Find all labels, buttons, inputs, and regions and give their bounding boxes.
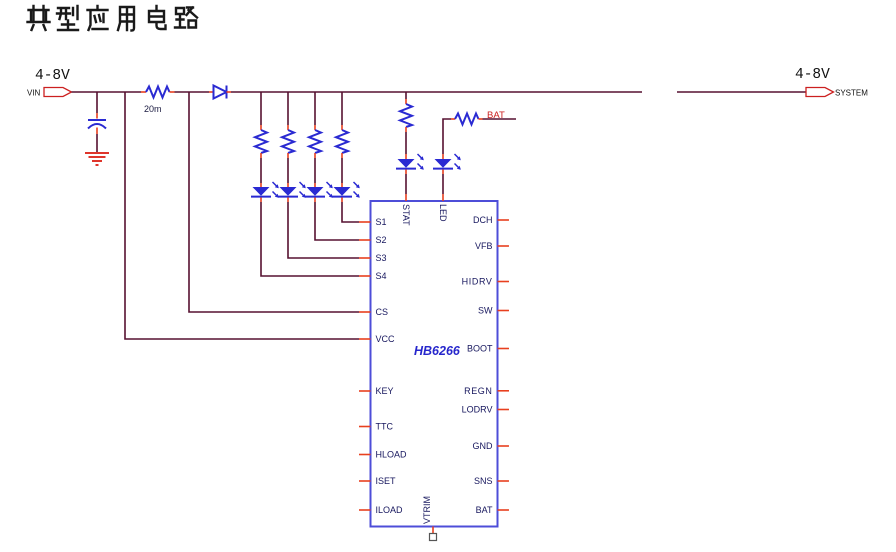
pin S3: [359, 253, 387, 263]
wire VIN to R1: [72, 91, 142, 93]
LED D3 (S3): [278, 182, 306, 202]
wire LED D7 anode up: [443, 119, 451, 154]
port SYSTEM connector: [806, 88, 868, 98]
wire LED D2 to S4 pin: [261, 202, 359, 276]
diode D1: [209, 86, 231, 99]
wire LED D6 to STAT pin: [405, 174, 407, 194]
svg-text:BAT: BAT: [476, 505, 493, 515]
svg-text:HLOAD: HLOAD: [376, 450, 408, 460]
svg-text:SNS: SNS: [474, 476, 493, 486]
wire Q1 drain to SYSTEM: [677, 91, 806, 93]
svg-text:S1: S1: [376, 217, 387, 227]
pin TTC: [359, 422, 393, 432]
resistor R2 (S4 branch): [255, 92, 267, 183]
svg-text:S3: S3: [376, 253, 387, 263]
svg-text:VFB: VFB: [475, 241, 493, 251]
svg-text:ILOAD: ILOAD: [376, 505, 404, 515]
pin CS: [359, 307, 388, 317]
pin VCC: [359, 334, 395, 344]
svg-text:KEY: KEY: [376, 386, 394, 396]
pin VTRIM (bottom): [422, 496, 437, 541]
pin LODRV: [462, 405, 509, 415]
pin ILOAD: [359, 505, 403, 515]
LED D4 (S2): [305, 182, 333, 202]
wire LED D3 to S3 pin: [288, 202, 359, 258]
svg-text:S4: S4: [376, 271, 387, 281]
LED D6 (STAT): [396, 154, 424, 174]
ground (input cap): [85, 153, 109, 165]
svg-text:HB6266: HB6266: [414, 344, 461, 358]
svg-text:REGN: REGN: [464, 386, 492, 396]
wire LED D5 to S1 pin: [342, 202, 359, 222]
pin LED (top): [438, 194, 448, 222]
pin VFB: [475, 241, 509, 251]
pin SNS: [474, 476, 509, 486]
resistor R4 (S2 branch): [309, 92, 321, 183]
pin DCH: [473, 215, 509, 225]
svg-text:BAT: BAT: [487, 110, 505, 121]
svg-text:TTC: TTC: [376, 422, 394, 432]
LED D5 (S1): [332, 182, 360, 202]
svg-text:VCC: VCC: [376, 334, 396, 344]
pin KEY: [359, 386, 394, 396]
op-amp U1 HB6266 body: [371, 201, 498, 527]
pin GND: [473, 441, 510, 451]
resistor R1 20m: [141, 87, 175, 115]
LED D2 (S4): [251, 182, 279, 202]
resistor R7 (LED to BAT): [451, 114, 483, 125]
wire D1 to Q1 source (main rail): [231, 91, 642, 93]
pin S1: [359, 217, 387, 227]
pin REGN: [464, 386, 509, 396]
resistor R3 (S3 branch): [282, 92, 294, 183]
svg-text:20m: 20m: [144, 104, 162, 114]
pin STAT (top): [401, 194, 411, 226]
svg-text:DCH: DCH: [473, 215, 493, 225]
svg-text:GND: GND: [473, 441, 494, 451]
svg-text:STAT: STAT: [401, 204, 411, 226]
title 典型应用电路: [28, 6, 198, 31]
pin BOOT: [467, 344, 509, 354]
wire LED D7 to LED pin: [442, 174, 444, 194]
port VIN connector: [27, 88, 72, 98]
wire LED D4 to S2 pin: [315, 202, 359, 240]
wire R7 to BAT net label: [483, 118, 517, 120]
svg-text:4-8V: 4-8V: [795, 67, 830, 83]
svg-text:VIN: VIN: [27, 89, 41, 98]
pin HLOAD: [359, 450, 407, 460]
wire VCC net (rail to VCC pin): [125, 92, 359, 339]
pin SW: [478, 306, 509, 316]
svg-text:LODRV: LODRV: [462, 405, 493, 415]
svg-text:LED: LED: [438, 204, 448, 222]
svg-text:CS: CS: [376, 307, 389, 317]
svg-text:SW: SW: [478, 306, 493, 316]
svg-text:SYSTEM: SYSTEM: [835, 89, 868, 98]
svg-text:S2: S2: [376, 235, 387, 245]
svg-text:4-8V: 4-8V: [35, 68, 70, 84]
LED D7 (chip LED pin): [433, 154, 461, 174]
resistor R6 (STAT branch): [400, 92, 412, 154]
pin S2: [359, 235, 387, 245]
pin BAT: [476, 505, 509, 515]
svg-text:ISET: ISET: [376, 476, 397, 486]
wire CS net (rail to CS pin): [189, 92, 359, 312]
pin HIDRV: [462, 277, 509, 287]
pin ISET: [359, 476, 396, 486]
capacitor C1 (input cap): [88, 92, 106, 152]
svg-text:VTRIM: VTRIM: [422, 496, 432, 524]
svg-text:HIDRV: HIDRV: [462, 277, 493, 287]
svg-text:BOOT: BOOT: [467, 344, 493, 354]
wire R1 to D1: [175, 91, 210, 93]
pin S4: [359, 271, 387, 281]
resistor R5 (S1 branch): [336, 92, 348, 183]
